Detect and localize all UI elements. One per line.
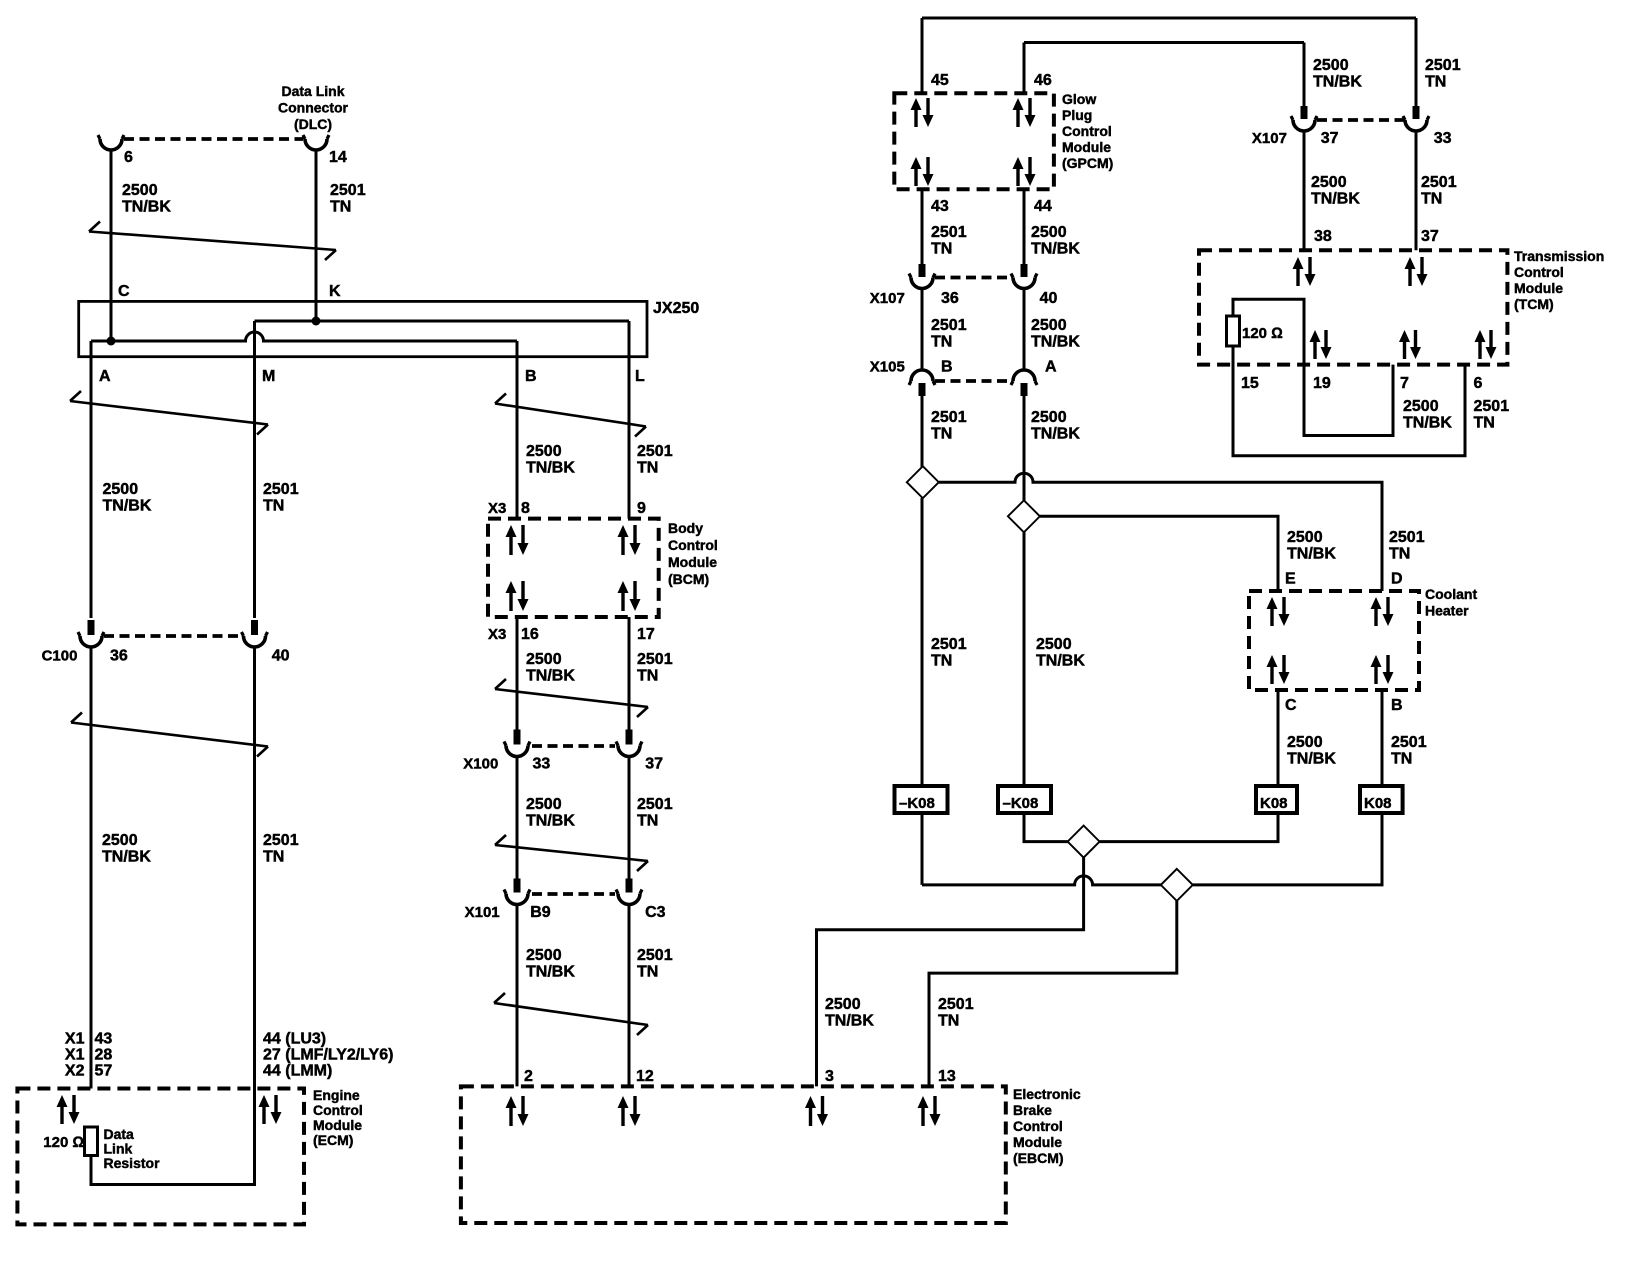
svg-text:45: 45 bbox=[931, 72, 949, 89]
svg-text:Control: Control bbox=[313, 1102, 363, 1118]
connector C100 pin 40 (male+female) bbox=[242, 620, 268, 647]
svg-text:2500: 2500 bbox=[526, 651, 562, 668]
connector X107 pin 36 bbox=[909, 264, 935, 289]
TCM serial data arrows pin 19 bbox=[1310, 330, 1332, 359]
svg-text:TN: TN bbox=[263, 498, 284, 515]
svg-text:Coolant: Coolant bbox=[1425, 586, 1477, 602]
label circuit 2501 TN top right bbox=[1425, 57, 1461, 91]
svg-text:44 (LU3): 44 (LU3) bbox=[263, 1031, 326, 1048]
splice diamond 2501 TN bottom bbox=[1161, 869, 1193, 901]
svg-text:7: 7 bbox=[1400, 375, 1409, 392]
wire 2501 TN from K08 4 bbox=[1193, 813, 1382, 885]
module EBCM dashed box bbox=[461, 1086, 1006, 1223]
svg-text:2500: 2500 bbox=[102, 832, 138, 849]
label circuit 2500 TN/BK bbox=[122, 182, 171, 216]
svg-text:TN/BK: TN/BK bbox=[102, 849, 151, 866]
label circuit 2500 TN/BK bbox=[1031, 409, 1080, 443]
svg-text:19: 19 bbox=[1313, 375, 1331, 392]
wire 2501 TN BCM to X100 bbox=[628, 617, 631, 730]
svg-text:2501: 2501 bbox=[637, 796, 673, 813]
wire C: 2500 TN/BK from DLC 6 to JX250 bbox=[110, 150, 113, 341]
BCM serial data arrows pin 16 bbox=[506, 581, 529, 611]
svg-text:Control: Control bbox=[1013, 1118, 1063, 1134]
svg-text:17: 17 bbox=[637, 626, 655, 643]
ECM pin labels 44/27/44 engine variants bbox=[263, 1031, 393, 1080]
module Coolant Heater dashed box bbox=[1249, 591, 1419, 690]
wire 2500 TN/BK -K08 2 down bbox=[1024, 813, 1068, 842]
svg-text:Control: Control bbox=[668, 537, 718, 553]
wire 2501 TN X101 to EBCM bbox=[628, 904, 631, 1086]
wire M: 2501 TN C100 to ECM bbox=[253, 647, 256, 1089]
wire A: 2500 TN/BK C100 to ECM bbox=[90, 647, 93, 1089]
svg-text:TN/BK: TN/BK bbox=[526, 668, 575, 685]
svg-text:B: B bbox=[1391, 697, 1403, 714]
ECM name label bbox=[313, 1087, 363, 1148]
svg-text:2501: 2501 bbox=[931, 224, 967, 241]
coolant heater arrows pin E bbox=[1267, 597, 1290, 626]
svg-text:Heater: Heater bbox=[1425, 603, 1469, 619]
label circuit 2500 TN/BK bbox=[526, 947, 575, 981]
svg-text:40: 40 bbox=[272, 648, 290, 665]
svg-text:2501: 2501 bbox=[1389, 529, 1425, 546]
svg-text:27 (LMF/LY2/LY6): 27 (LMF/LY2/LY6) bbox=[263, 1047, 393, 1064]
junction block JX250 outline bbox=[79, 301, 647, 356]
connector X107 pin 37 (right) bbox=[1291, 106, 1317, 131]
svg-text:X100: X100 bbox=[463, 756, 498, 773]
svg-text:2501: 2501 bbox=[330, 182, 366, 199]
svg-text:Module: Module bbox=[1514, 280, 1563, 296]
label circuit 2501 TN bbox=[637, 796, 673, 830]
wire B: 2500 TN/BK JX250-B to BCM bbox=[516, 341, 519, 519]
wire 2500 TN/BK coolant C to K08 bbox=[1277, 690, 1280, 786]
label circuit 2501 TN EBCM 13 bbox=[938, 996, 974, 1030]
svg-text:C3: C3 bbox=[645, 904, 666, 921]
svg-text:Electronic: Electronic bbox=[1013, 1086, 1081, 1102]
svg-text:13: 13 bbox=[938, 1068, 956, 1085]
splice K08 box 4 bbox=[1360, 786, 1403, 813]
connector C100 pin 36 (male+female) bbox=[78, 620, 104, 647]
wire 2501 TN X105 to splice bbox=[921, 396, 924, 467]
data link resistor name bbox=[104, 1126, 161, 1171]
svg-text:K08: K08 bbox=[1260, 795, 1288, 812]
label circuit 2501 TN bbox=[931, 224, 967, 258]
wire rail 2501 TN top bbox=[922, 17, 1416, 20]
svg-text:36: 36 bbox=[110, 648, 128, 665]
svg-text:2501: 2501 bbox=[637, 443, 673, 460]
svg-text:Brake: Brake bbox=[1013, 1102, 1052, 1118]
wire ECM internal below resistor bbox=[91, 1089, 255, 1185]
svg-text:2501: 2501 bbox=[263, 832, 299, 849]
svg-text:2500: 2500 bbox=[1403, 398, 1439, 415]
wire 2501 TN X107 to X105 bbox=[921, 289, 924, 370]
svg-text:8: 8 bbox=[521, 500, 530, 517]
label circuit 2501 TN bbox=[1421, 174, 1457, 208]
connector DLC cavity 6 bbox=[98, 135, 124, 150]
svg-text:2500: 2500 bbox=[1287, 529, 1323, 546]
label circuit 2500 TN/BK lateral bbox=[1287, 529, 1336, 563]
connector X100 pin 37 bbox=[616, 730, 642, 757]
TCM internal wire resistor to pin 19 bbox=[1233, 299, 1393, 435]
svg-text:33: 33 bbox=[1434, 130, 1452, 147]
svg-text:(GPCM): (GPCM) bbox=[1062, 155, 1113, 171]
svg-text:2501: 2501 bbox=[938, 996, 974, 1013]
label circuit 2500 TN/BK bbox=[1031, 224, 1080, 258]
label circuit 2500 TN/BK bbox=[526, 796, 575, 830]
svg-text:2500: 2500 bbox=[825, 996, 861, 1013]
svg-text:2500: 2500 bbox=[103, 481, 139, 498]
coolant heater name label bbox=[1425, 586, 1477, 619]
svg-text:X3: X3 bbox=[488, 500, 506, 517]
svg-text:16: 16 bbox=[521, 626, 539, 643]
label circuit 2500 TN/BK bbox=[1036, 636, 1085, 670]
svg-text:Module: Module bbox=[668, 554, 717, 570]
ECM serial data arrows pin 44 bbox=[259, 1095, 282, 1124]
svg-text:TN: TN bbox=[938, 1013, 959, 1030]
wire A: 2500 TN/BK JX250-A down to C100 bbox=[90, 341, 93, 618]
svg-text:2501: 2501 bbox=[637, 651, 673, 668]
svg-text:2501: 2501 bbox=[931, 317, 967, 334]
GPCM serial data arrows pin 44 bbox=[1013, 157, 1036, 186]
svg-text:120 Ω: 120 Ω bbox=[43, 1134, 84, 1151]
junction dot node C bbox=[107, 337, 116, 346]
svg-text:X1: X1 bbox=[65, 1047, 85, 1064]
svg-text:TN: TN bbox=[1421, 191, 1442, 208]
svg-text:–K08: –K08 bbox=[899, 795, 935, 812]
GPCM serial data arrows pin 45 bbox=[911, 98, 934, 127]
svg-text:X107: X107 bbox=[1252, 130, 1287, 147]
wire 2500 TN/BK from K08 3 bbox=[1100, 813, 1278, 842]
svg-text:2500: 2500 bbox=[1031, 317, 1067, 334]
connector X101 pin B9 bbox=[504, 879, 530, 905]
TCM serial data arrows pin 37 bbox=[1405, 257, 1428, 286]
BCM pin X3 8 label bbox=[488, 500, 530, 517]
TCM serial data arrows pin 7 bbox=[1399, 330, 1421, 359]
coolant heater arrows pin D bbox=[1371, 597, 1394, 626]
svg-text:43: 43 bbox=[931, 198, 949, 215]
wire 45 vertical bbox=[921, 18, 924, 93]
svg-text:TN/BK: TN/BK bbox=[825, 1013, 874, 1030]
svg-text:TN: TN bbox=[931, 426, 952, 443]
svg-text:X1: X1 bbox=[65, 1031, 85, 1048]
coolant heater arrows pin C bbox=[1267, 655, 1290, 684]
label circuit 2500 TN/BK bbox=[1031, 317, 1080, 351]
splice diamond 2500 TN/BK bottom bbox=[1068, 826, 1100, 858]
svg-text:TN/BK: TN/BK bbox=[1036, 653, 1085, 670]
label circuit 2500 TN/BK bbox=[1287, 734, 1336, 768]
svg-text:TN: TN bbox=[637, 813, 658, 830]
svg-text:TN/BK: TN/BK bbox=[1287, 546, 1336, 563]
svg-text:2500: 2500 bbox=[526, 947, 562, 964]
svg-text:2500: 2500 bbox=[1036, 636, 1072, 653]
svg-text:2500: 2500 bbox=[1311, 174, 1347, 191]
svg-text:A: A bbox=[1045, 359, 1057, 376]
svg-text:JX250: JX250 bbox=[653, 300, 699, 317]
module TCM dashed box bbox=[1199, 250, 1507, 364]
label circuit 2500 TN/BK bbox=[526, 443, 575, 477]
svg-text:2501: 2501 bbox=[931, 409, 967, 426]
svg-text:TN/BK: TN/BK bbox=[122, 199, 171, 216]
wire 2501 TN lateral to diamond (hop over 2500) bbox=[922, 876, 1161, 885]
coolant heater arrows pin B bbox=[1371, 655, 1394, 684]
connector DLC cavity 14 bbox=[303, 135, 329, 150]
TCM serial data arrows pin 6 bbox=[1475, 330, 1497, 359]
TCM internal wire resistor to pin 15 and jumper to pin 6 bbox=[1233, 346, 1465, 456]
EBCM name label bbox=[1013, 1086, 1081, 1166]
svg-text:2500: 2500 bbox=[526, 443, 562, 460]
svg-text:Module: Module bbox=[313, 1117, 362, 1133]
svg-text:44: 44 bbox=[1034, 198, 1052, 215]
wire M: 2501 TN JX250-M down to C100 bbox=[253, 321, 256, 618]
svg-text:2501: 2501 bbox=[637, 947, 673, 964]
connector X100 pin 33 bbox=[504, 730, 530, 757]
wire 2501 TN X107 to TCM 37 bbox=[1415, 132, 1418, 251]
svg-text:K: K bbox=[329, 283, 341, 300]
twisted pair symbol 2/12 bbox=[494, 993, 648, 1035]
splice K08 box 3 bbox=[1256, 786, 1297, 813]
svg-text:Control: Control bbox=[1514, 264, 1564, 280]
svg-text:(TCM): (TCM) bbox=[1514, 296, 1554, 312]
wire 2500 TN/BK splice down to -K08 bbox=[1023, 532, 1026, 786]
label circuit 2500 TN/BK bbox=[102, 832, 151, 866]
svg-text:C: C bbox=[1285, 697, 1297, 714]
label circuit 2500 TN/BK bbox=[1311, 174, 1360, 208]
label circuit 2501 TN bbox=[1391, 734, 1427, 768]
connector X107 dashed body bbox=[935, 276, 1012, 280]
svg-text:44 (LMM): 44 (LMM) bbox=[263, 1063, 332, 1080]
svg-text:TN/BK: TN/BK bbox=[1403, 415, 1452, 432]
svg-text:38: 38 bbox=[1314, 228, 1332, 245]
svg-text:K08: K08 bbox=[1364, 795, 1392, 812]
module BCM dashed box bbox=[488, 519, 659, 617]
twisted pair symbol 16/17 bbox=[495, 679, 648, 717]
svg-text:2501: 2501 bbox=[1391, 734, 1427, 751]
svg-text:3: 3 bbox=[825, 1068, 834, 1085]
label circuit 2500 TN/BK bbox=[526, 651, 575, 685]
splice -K08 box 2 bbox=[998, 786, 1051, 813]
svg-text:TN: TN bbox=[637, 460, 658, 477]
wire rail right vertical to X107 pin 37 bbox=[1303, 43, 1306, 107]
svg-text:TN/BK: TN/BK bbox=[1311, 191, 1360, 208]
svg-text:TN: TN bbox=[931, 241, 952, 258]
svg-text:2500: 2500 bbox=[1031, 409, 1067, 426]
twisted pair symbol B/L upper bbox=[495, 394, 646, 437]
svg-text:6: 6 bbox=[1474, 375, 1483, 392]
svg-text:33: 33 bbox=[533, 756, 551, 773]
svg-text:12: 12 bbox=[636, 1068, 654, 1085]
svg-text:C: C bbox=[118, 283, 130, 300]
label circuit 2501 TN bbox=[637, 443, 673, 477]
svg-text:TN: TN bbox=[1474, 415, 1495, 432]
svg-text:TN: TN bbox=[1389, 546, 1410, 563]
svg-text:Resistor: Resistor bbox=[104, 1155, 161, 1171]
JX250 upper bus wire K to M and L bbox=[255, 320, 630, 323]
svg-text:TN: TN bbox=[1391, 751, 1412, 768]
connector X107 pin 33 (right) bbox=[1403, 106, 1429, 131]
svg-text:D: D bbox=[1391, 570, 1403, 587]
svg-text:TN: TN bbox=[263, 849, 284, 866]
svg-text:37: 37 bbox=[1321, 130, 1339, 147]
wire K: 2501 TN from DLC 14 to JX250 bbox=[315, 150, 318, 321]
ECM serial data arrows pin 43 bbox=[57, 1095, 80, 1124]
wire 46 vertical bbox=[1023, 43, 1026, 94]
svg-text:2500: 2500 bbox=[1031, 224, 1067, 241]
connector X107 pin 40 bbox=[1011, 264, 1037, 289]
svg-text:9: 9 bbox=[637, 500, 646, 517]
label circuit 2501 TN bbox=[931, 409, 967, 443]
svg-text:X3: X3 bbox=[488, 626, 506, 643]
svg-text:57: 57 bbox=[95, 1063, 113, 1080]
svg-text:Data Link: Data Link bbox=[281, 83, 344, 99]
label circuit 2500 TN/BK top right bbox=[1313, 57, 1362, 91]
BCM pin X3 16 label bbox=[488, 626, 539, 643]
wire 2500 TN/BK diamond to EBCM pin 3 bbox=[817, 858, 1084, 1087]
svg-text:L: L bbox=[635, 368, 645, 385]
svg-text:TN: TN bbox=[637, 964, 658, 981]
connector X101 pin C3 bbox=[616, 879, 642, 905]
connector DLC dashed body bbox=[124, 137, 303, 141]
label circuit 2500 TN/BK bbox=[103, 481, 152, 515]
BCM serial data arrows pin 8 bbox=[506, 525, 529, 555]
label circuit 2501 TN bbox=[263, 832, 299, 866]
twisted pair symbol C/K bbox=[89, 222, 336, 261]
svg-text:X105: X105 bbox=[870, 359, 905, 376]
TCM serial data arrows pin 38 bbox=[1293, 257, 1316, 286]
svg-text:2501: 2501 bbox=[263, 481, 299, 498]
BCM serial data arrows pin 17 bbox=[618, 581, 641, 611]
connector X101 dashed body bbox=[532, 892, 615, 896]
svg-text:A: A bbox=[99, 368, 111, 385]
wire 2500 TN/BK BCM to X100 bbox=[516, 617, 519, 730]
wire 2500 TN/BK lateral to coolant heater E bbox=[1040, 516, 1278, 591]
svg-text:X107: X107 bbox=[870, 290, 905, 307]
wire 2501 TN -K08 down bbox=[921, 813, 924, 885]
label circuit 2501 TN bbox=[263, 481, 299, 515]
label circuit 2501 TN bbox=[931, 636, 967, 670]
splice diamond 2501 TN bbox=[907, 466, 939, 498]
label circuit 2500 TN/BK EBCM 3 bbox=[825, 996, 874, 1030]
connector DLC title bbox=[278, 83, 349, 132]
EBCM serial data arrows pin 2 bbox=[506, 1096, 529, 1126]
svg-text:B: B bbox=[525, 368, 537, 385]
svg-text:Module: Module bbox=[1062, 139, 1111, 155]
EBCM serial data arrows pin 13 bbox=[918, 1096, 941, 1126]
svg-text:Connector: Connector bbox=[278, 100, 349, 116]
svg-text:TN/BK: TN/BK bbox=[1287, 751, 1336, 768]
svg-text:37: 37 bbox=[1421, 228, 1439, 245]
svg-text:2500: 2500 bbox=[1313, 57, 1349, 74]
connector C100 dashed body bbox=[104, 634, 242, 638]
wire 2500 TN/BK X107 to TCM 38 bbox=[1303, 132, 1306, 251]
svg-text:Glow: Glow bbox=[1062, 91, 1096, 107]
svg-text:–K08: –K08 bbox=[1003, 795, 1039, 812]
label circuit 2501 TN lateral bbox=[1389, 529, 1425, 563]
wire rail 2500 TN/BK second bbox=[1024, 41, 1304, 44]
svg-text:X2: X2 bbox=[65, 1063, 85, 1080]
svg-text:E: E bbox=[1285, 570, 1296, 587]
svg-text:TN/BK: TN/BK bbox=[1313, 74, 1362, 91]
splice diamond 2500 TN/BK bbox=[1008, 500, 1040, 532]
wire 2500 TN/BK X101 to EBCM bbox=[516, 904, 519, 1086]
svg-text:C100: C100 bbox=[42, 648, 78, 665]
svg-text:TN/BK: TN/BK bbox=[1031, 334, 1080, 351]
svg-text:(EBCM): (EBCM) bbox=[1013, 1150, 1064, 1166]
svg-text:TN: TN bbox=[931, 653, 952, 670]
junction dot node K bbox=[312, 317, 321, 326]
svg-text:2501: 2501 bbox=[1474, 398, 1510, 415]
resistor data link 120 ohm bbox=[85, 1127, 98, 1156]
svg-text:2501: 2501 bbox=[1421, 174, 1457, 191]
svg-text:X101: X101 bbox=[465, 904, 500, 921]
wire 2500 TN/BK X100 to X101 bbox=[516, 757, 519, 879]
svg-text:TN: TN bbox=[330, 199, 351, 216]
wire 2500 TN/BK GPCM 44 to X107 bbox=[1023, 189, 1026, 264]
svg-text:40: 40 bbox=[1040, 290, 1058, 307]
svg-text:B9: B9 bbox=[530, 904, 551, 921]
svg-text:Module: Module bbox=[1013, 1134, 1062, 1150]
svg-text:(BCM): (BCM) bbox=[668, 571, 709, 587]
svg-text:Body: Body bbox=[668, 520, 703, 536]
splice -K08 box 1 bbox=[895, 786, 948, 813]
svg-text:B: B bbox=[941, 359, 953, 376]
svg-text:2501: 2501 bbox=[931, 636, 967, 653]
wire 2501 TN GPCM 43 to X107 bbox=[921, 189, 924, 264]
svg-text:Plug: Plug bbox=[1062, 107, 1092, 123]
module GPCM dashed box bbox=[894, 93, 1054, 189]
svg-text:TN/BK: TN/BK bbox=[526, 813, 575, 830]
connector X107 right dashed body bbox=[1317, 118, 1404, 122]
svg-text:46: 46 bbox=[1034, 72, 1052, 89]
TCM name label bbox=[1514, 248, 1604, 312]
GPCM name label bbox=[1062, 91, 1113, 171]
JX250 lower bus wire C to A and B (hop over M) bbox=[91, 332, 517, 341]
wire 2501 TN splice down to -K08 bbox=[921, 498, 924, 786]
svg-text:15: 15 bbox=[1241, 375, 1259, 392]
wire L: 2501 TN JX250-L to BCM bbox=[628, 321, 631, 519]
svg-text:14: 14 bbox=[329, 149, 347, 166]
twisted pair symbol 33/37 bbox=[495, 835, 648, 871]
label circuit 2501 TN bbox=[330, 182, 366, 216]
wire 2501 TN diamond to EBCM pin 13 bbox=[929, 901, 1177, 1087]
EBCM serial data arrows pin 12 bbox=[618, 1096, 641, 1126]
svg-text:2500: 2500 bbox=[1287, 734, 1323, 751]
svg-text:M: M bbox=[262, 368, 275, 385]
twisted pair symbol A/M upper bbox=[70, 391, 268, 435]
svg-text:TN: TN bbox=[931, 334, 952, 351]
wire rail right vertical to X107 pin 33 bbox=[1415, 18, 1418, 106]
connector X105 dashed body bbox=[935, 379, 1012, 383]
module ECM dashed box bbox=[17, 1089, 304, 1225]
wire 2501 TN coolant B to K08 bbox=[1381, 690, 1384, 786]
svg-text:Control: Control bbox=[1062, 123, 1112, 139]
svg-text:2500: 2500 bbox=[122, 182, 158, 199]
svg-text:43: 43 bbox=[95, 1031, 113, 1048]
svg-text:TN: TN bbox=[637, 668, 658, 685]
EBCM serial data arrows pin 3 bbox=[805, 1096, 828, 1126]
svg-text:TN/BK: TN/BK bbox=[526, 964, 575, 981]
svg-text:(ECM): (ECM) bbox=[313, 1132, 353, 1148]
wire 2500 TN/BK X105 to splice bbox=[1023, 396, 1026, 501]
connector X100 dashed body bbox=[532, 744, 615, 748]
svg-text:120 Ω: 120 Ω bbox=[1242, 325, 1283, 342]
connector X105 pin B bbox=[909, 370, 935, 396]
svg-text:Engine: Engine bbox=[313, 1087, 360, 1103]
label circuit 2500 TN/BK below TCM bbox=[1403, 398, 1452, 432]
svg-text:36: 36 bbox=[941, 290, 959, 307]
svg-text:(DLC): (DLC) bbox=[294, 116, 332, 132]
svg-text:6: 6 bbox=[124, 149, 133, 166]
svg-text:TN/BK: TN/BK bbox=[1031, 426, 1080, 443]
label circuit 2501 TN bbox=[931, 317, 967, 351]
